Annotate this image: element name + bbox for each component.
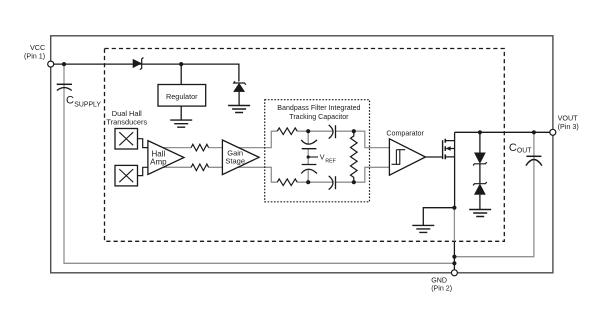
svg-text:Tracking Capacitor: Tracking Capacitor xyxy=(289,113,349,121)
wire X1 to Hall Amp input xyxy=(138,139,149,148)
comparator U2 xyxy=(389,139,425,175)
zener diode Z1 (supply clamp near regulator) xyxy=(234,81,246,85)
junction dot (filter bottom-left) xyxy=(306,180,310,184)
diode D1 (reverse protection on VCC rail) xyxy=(133,59,141,67)
junction dot (ground branch) xyxy=(452,206,456,210)
svg-text:Bandpass Filter Integrated: Bandpass Filter Integrated xyxy=(277,104,360,112)
resistor R2 (bottom diff line) xyxy=(191,164,209,171)
bandpass filter dotted enclosure xyxy=(265,100,370,202)
ground (under output clamps) xyxy=(469,210,491,217)
resistor R1 (top diff line) xyxy=(191,144,209,151)
svg-text:(Pin 3): (Pin 3) xyxy=(558,122,579,131)
package outline (IC boundary) xyxy=(51,36,553,273)
wire regulator to ground xyxy=(180,106,182,120)
wire ground branch from source bus xyxy=(423,208,454,226)
junction dot (filter bottom-right) xyxy=(352,180,356,184)
inner dashed boundary (chip internals) xyxy=(105,49,505,242)
capacitor C4 (VREF divider lower) xyxy=(301,165,317,174)
wire filter middle branch (VREF divider) xyxy=(307,131,309,182)
junction dot (COUT return) xyxy=(452,255,456,259)
resistor R5 (filter right vertical) xyxy=(351,131,358,182)
svg-text:SUPPLY: SUPPLY xyxy=(74,102,101,109)
wire source bus lower black segment to GND pin xyxy=(453,241,455,269)
junction dot (filter top-left) xyxy=(306,129,310,133)
wire Z1 to ground xyxy=(238,92,240,106)
svg-text:Transducers: Transducers xyxy=(106,117,147,126)
wire source bus gray segment (ground junction to dashed boundary) xyxy=(453,208,455,242)
resistor R4 (filter bottom row) xyxy=(277,179,297,186)
ground (under regulator) xyxy=(170,120,192,127)
junction dot (zener clamp tap) xyxy=(478,130,482,134)
wire MOSFET drain/source bus xyxy=(454,132,456,207)
svg-text:C: C xyxy=(509,142,517,154)
svg-text:C: C xyxy=(66,95,74,107)
svg-text:OUT: OUT xyxy=(517,148,532,155)
ground (under zener Z1) xyxy=(228,106,250,113)
terminal VCC pin 1 xyxy=(48,61,54,67)
junction dot (regulator tap) xyxy=(179,62,183,66)
wire VCC-to-CSUPPLY ground return (gray net) xyxy=(64,64,454,263)
svg-text:(Pin 2): (Pin 2) xyxy=(431,285,452,293)
wire regulator input drop xyxy=(180,64,182,84)
svg-text:Stage: Stage xyxy=(225,157,245,166)
svg-text:Regulator: Regulator xyxy=(166,92,198,101)
node VREF tick xyxy=(308,156,318,158)
capacitor C3 (VREF divider upper) xyxy=(301,140,317,149)
wire VOUT rail xyxy=(455,131,550,133)
wire comparator output to MOSFET gate xyxy=(426,156,443,158)
wire differential pair top (Hall Amp to Gain Stage to filter to Comparator) xyxy=(163,131,389,147)
regulator block U1 xyxy=(158,85,206,107)
svg-text:Comparator: Comparator xyxy=(386,129,424,137)
zener diode Z2 (output clamp upper) xyxy=(479,132,481,153)
junction dot (CSUPPLY tap) xyxy=(62,62,66,66)
hall transducer element X1 (top) xyxy=(115,129,138,150)
hysteresis symbol inside comparator xyxy=(392,150,406,165)
svg-text:V: V xyxy=(320,153,325,162)
terminal GND pin 2 xyxy=(451,270,457,276)
op-amp Gain Stage xyxy=(222,140,259,175)
hall transducer element X2 (bottom) xyxy=(115,165,138,186)
resistor R3 (filter top row) xyxy=(277,128,297,135)
zener diode Z3 (output clamp lower) xyxy=(479,164,481,184)
capacitor CSUPPLY xyxy=(57,83,72,85)
junction dot (filter top-right) xyxy=(352,129,356,133)
capacitor C2 (series, bottom row) xyxy=(329,176,336,190)
svg-text:Amp: Amp xyxy=(150,157,167,166)
op-amp Hall Amp xyxy=(148,141,184,175)
wire VCC rail (pin 1 to regulator and zener) xyxy=(54,64,239,81)
capacitor C1 (series, top row) xyxy=(329,125,336,139)
junction dot (COUT tap) xyxy=(532,130,536,134)
ground (comparator/MOSFET return) xyxy=(412,225,434,232)
wire differential pair bottom xyxy=(163,167,389,182)
junction dot (VREF node) xyxy=(307,155,310,158)
terminal VOUT pin 3 xyxy=(550,129,556,135)
svg-text:GND: GND xyxy=(431,276,447,284)
wire X2 to Hall Amp input xyxy=(138,167,149,175)
svg-text:REF: REF xyxy=(325,158,335,164)
capacitor COUT xyxy=(526,155,541,157)
wire COUT net (gray, VOUT node down and left to GND junction) xyxy=(454,132,534,256)
svg-text:(Pin 1): (Pin 1) xyxy=(24,51,45,60)
junction dot (CSUPPLY return) xyxy=(452,261,456,265)
transistor Q1 (output MOSFET) xyxy=(443,139,455,160)
